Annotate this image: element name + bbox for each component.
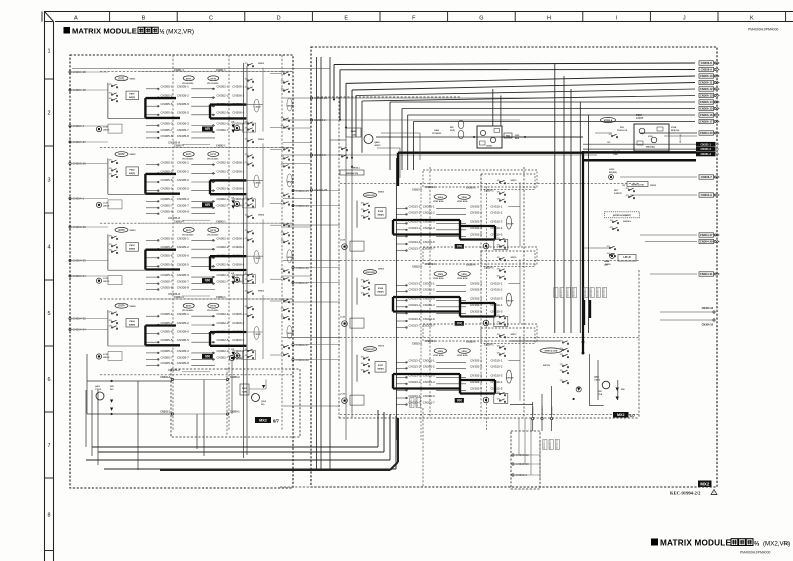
svg-text:L/R LR: L/R LR <box>623 257 631 259</box>
svg-text:CN305-6: CN305-6 <box>177 178 189 182</box>
svg-text:CN305-2: CN305-2 <box>160 169 172 173</box>
svg-text:CN302-7: CN302-7 <box>216 204 228 208</box>
svg-text:VR02 A20k: VR02 A20k <box>433 354 445 357</box>
svg-text:GROUP: GROUP <box>507 301 515 303</box>
svg-text:CN306-2: CN306-2 <box>232 245 244 249</box>
svg-text:SW16: SW16 <box>511 257 518 259</box>
svg-text:CN305-1: CN305-1 <box>177 312 189 316</box>
svg-text:CN305-3: CN305-3 <box>177 197 189 201</box>
svg-text:EXT1: EXT1 <box>119 77 126 80</box>
svg-text:CN318-1: CN318-1 <box>542 405 544 415</box>
svg-text:CN305-7: CN305-7 <box>177 355 189 359</box>
svg-text:CN306-16: CN306-16 <box>700 113 713 117</box>
svg-text:SW28-b: SW28-b <box>623 221 632 223</box>
svg-text:CN305-1: CN305-1 <box>177 236 189 240</box>
svg-text:CN305-3: CN305-3 <box>177 121 189 125</box>
svg-text:SW(F): SW(F) <box>129 325 136 327</box>
svg-text:CN313-6: CN313-6 <box>408 317 420 321</box>
svg-text:SW(F): SW(F) <box>129 97 136 99</box>
svg-text:CN310-3: CN310-3 <box>490 373 502 377</box>
svg-text:VR02 A20k: VR02 A20k <box>457 277 469 280</box>
svg-text:4: 4 <box>47 245 50 251</box>
svg-text:CN306-12: CN306-12 <box>700 87 713 91</box>
svg-text:CN301-1: CN301-1 <box>423 281 435 285</box>
svg-text:EXT2: EXT2 <box>211 78 217 80</box>
svg-text:CN302: CN302 <box>254 182 261 184</box>
svg-text:CN305-5: CN305-5 <box>177 111 189 115</box>
svg-text:CP106/25: CP106/25 <box>432 133 442 135</box>
svg-text:SW(F): SW(F) <box>129 173 136 175</box>
svg-text:6/7: 6/7 <box>273 418 279 423</box>
svg-text:SW(F): SW(F) <box>377 292 384 294</box>
svg-text:CN301-7: CN301-7 <box>423 401 435 405</box>
svg-text:CN310-1: CN310-1 <box>490 204 502 208</box>
svg-text:VR: VR <box>457 244 462 248</box>
svg-text:CN305-2: CN305-2 <box>160 245 172 249</box>
svg-text:CN305-2: CN305-2 <box>160 321 172 325</box>
svg-text:MTRX A CUE: MTRX A CUE <box>545 350 558 353</box>
svg-text:LED38: LED38 <box>103 357 110 359</box>
svg-text:CN315-3: CN315-3 <box>556 439 558 449</box>
svg-text:SW05: SW05 <box>258 291 265 293</box>
svg-text:P402: P402 <box>129 168 135 171</box>
svg-text:CN302: CN302 <box>254 107 261 109</box>
svg-text:!: ! <box>714 491 715 495</box>
svg-text:CN307-2: CN307-2 <box>561 287 563 297</box>
svg-text:CN301-4: CN301-4 <box>423 226 435 230</box>
svg-text:EXT1: EXT1 <box>186 306 192 308</box>
svg-text:CN321-1: CN321-1 <box>701 142 712 146</box>
svg-text:CN305-8: CN305-8 <box>177 210 189 214</box>
svg-text:CN304-4: CN304-4 <box>174 296 184 299</box>
svg-text:CN315-2: CN315-2 <box>550 439 552 449</box>
svg-text:C: C <box>209 16 213 22</box>
svg-text:CN324-1: CN324-1 <box>484 344 494 347</box>
svg-text:CN301-4: CN301-4 <box>174 69 184 72</box>
svg-text:CN305-1: CN305-1 <box>160 312 172 316</box>
svg-text:CN306-1: CN306-1 <box>232 85 244 89</box>
svg-text:CN302-7: CN302-7 <box>216 355 228 359</box>
svg-text:J: J <box>683 16 686 22</box>
svg-text:CN305-2: CN305-2 <box>177 245 189 249</box>
svg-text:CN301-2: CN301-2 <box>423 210 435 214</box>
svg-text:CN306-17: CN306-17 <box>700 120 713 124</box>
svg-text:CN305-7: CN305-7 <box>177 280 189 284</box>
svg-text:CN304-18: CN304-18 <box>702 307 714 310</box>
svg-text:CN306-2: CN306-2 <box>232 169 244 173</box>
svg-text:CN310-1: CN310-1 <box>490 281 502 285</box>
svg-text:CN310-2: CN310-2 <box>490 364 502 368</box>
svg-text:CN302-2: CN302-2 <box>470 364 482 368</box>
svg-text:CN310-5: CN310-5 <box>490 232 502 236</box>
svg-text:CN313-4: CN313-4 <box>412 189 422 192</box>
svg-text:CN305-3: CN305-3 <box>160 197 172 201</box>
svg-text:GROUP6: GROUP6 <box>365 272 375 274</box>
svg-text:CN313-4: CN313-4 <box>412 266 422 269</box>
svg-text:E: E <box>344 16 348 22</box>
svg-text:A OUT: A OUT <box>636 117 644 120</box>
svg-text:CN306-5: CN306-5 <box>232 338 244 342</box>
svg-text:CN305-6: CN305-6 <box>160 330 172 334</box>
svg-text:CN301-4: CN301-4 <box>426 340 436 343</box>
svg-text:MTRX A: MTRX A <box>604 119 613 122</box>
svg-text:GROUP: GROUP <box>507 378 515 380</box>
svg-text:VR02 A20k: VR02 A20k <box>433 277 445 280</box>
svg-text:CN305-1: CN305-1 <box>177 161 189 165</box>
svg-text:VR: VR <box>205 355 210 359</box>
svg-text:CN302-2: CN302-2 <box>470 210 482 214</box>
svg-text:CN318-2: CN318-2 <box>552 405 554 415</box>
svg-text:CN305-5: CN305-5 <box>160 187 172 191</box>
svg-text:½: ½ <box>160 28 165 35</box>
svg-text:CN302-2: CN302-2 <box>216 94 228 98</box>
svg-text:CN301-4: CN301-4 <box>426 186 436 189</box>
svg-text:CN301-6: CN301-6 <box>423 317 435 321</box>
svg-text:IC26: IC26 <box>648 136 653 138</box>
svg-text:(MX2,VR): (MX2,VR) <box>166 28 194 35</box>
svg-text:VR: VR <box>205 203 210 207</box>
svg-text:SW01: SW01 <box>130 78 137 80</box>
svg-text:CN302: CN302 <box>254 258 261 260</box>
svg-text:CN313-4: CN313-4 <box>408 303 420 307</box>
svg-text:CN318-0: CN318-0 <box>533 405 535 415</box>
svg-text:MX2: MX2 <box>617 413 624 417</box>
svg-text:CN305-3: CN305-3 <box>160 273 172 277</box>
svg-text:CN305-1: CN305-1 <box>160 236 172 240</box>
svg-text:⅔: ⅔ <box>754 540 760 547</box>
svg-text:CN313-2: CN313-2 <box>408 210 420 214</box>
svg-text:A1015: A1015 <box>375 144 382 147</box>
svg-text:6/7: 6/7 <box>630 413 636 418</box>
svg-text:EXT3: EXT3 <box>119 229 126 232</box>
svg-text:CN307-3: CN307-3 <box>567 287 569 297</box>
svg-text:SW03: SW03 <box>130 230 137 232</box>
svg-text:CN306-1: CN306-1 <box>232 312 244 316</box>
svg-text:CN302-5: CN302-5 <box>470 309 482 313</box>
svg-text:CN305-5: CN305-5 <box>177 338 189 342</box>
svg-text:CN305-1: CN305-1 <box>177 85 189 89</box>
svg-text:CN305-6: CN305-6 <box>177 254 189 258</box>
svg-text:BLK R(A): BLK R(A) <box>679 134 682 143</box>
svg-text:CN305-3: CN305-3 <box>160 121 172 125</box>
svg-text:CN302-3: CN302-3 <box>216 349 228 353</box>
svg-text:CN302-7: CN302-7 <box>216 128 228 132</box>
svg-text:MX2: MX2 <box>700 482 710 487</box>
svg-text:A: A <box>74 16 78 22</box>
svg-text:CN302-5: CN302-5 <box>216 187 228 191</box>
svg-text:L/R: L/R <box>231 122 235 124</box>
svg-text:MX2: MX2 <box>259 419 267 423</box>
svg-text:CUE: CUE <box>598 394 603 396</box>
svg-text:CN315-1: CN315-1 <box>544 439 546 449</box>
svg-text:MATRIX MODULE: MATRIX MODULE <box>660 539 731 548</box>
svg-text:L/R: L/R <box>231 197 235 199</box>
svg-text:GROUP: GROUP <box>287 181 295 183</box>
svg-text:CN305-2: CN305-2 <box>177 321 189 325</box>
svg-text:CN301-4: CN301-4 <box>426 263 436 266</box>
svg-text:CN307-1: CN307-1 <box>555 287 557 297</box>
svg-text:CN302-1: CN302-1 <box>216 161 228 165</box>
svg-text:SW63: SW63 <box>378 269 385 271</box>
svg-text:CN305-7: CN305-7 <box>160 204 172 208</box>
svg-text:VR02: VR02 <box>461 197 467 199</box>
svg-text:CN305-6: CN305-6 <box>177 102 189 106</box>
svg-text:CN306-11: CN306-11 <box>700 81 713 85</box>
svg-text:CN305-8: CN305-8 <box>160 210 172 214</box>
svg-text:VR: VR <box>205 279 210 283</box>
svg-text:CN310-1: CN310-1 <box>490 358 502 362</box>
svg-text:CN302: CN302 <box>254 334 261 336</box>
svg-text:SW(F): SW(F) <box>129 249 136 251</box>
svg-text:VR: VR <box>205 127 210 131</box>
svg-text:VR02: VR02 <box>461 351 467 353</box>
svg-text:VR02: VR02 <box>438 351 444 353</box>
svg-text:CN305-5: CN305-5 <box>160 262 172 266</box>
svg-text:CN319-1: CN319-1 <box>160 410 170 413</box>
svg-text:CN306-8: CN306-8 <box>701 61 713 65</box>
svg-text:CN301-1: CN301-1 <box>423 358 435 362</box>
svg-text:LED: LED <box>604 265 609 267</box>
svg-text:CN305-1: CN305-1 <box>160 85 172 89</box>
svg-text:CN305-7: CN305-7 <box>160 280 172 284</box>
svg-text:LR26: LR26 <box>609 169 615 171</box>
svg-text:CN306-9: CN306-9 <box>701 68 713 72</box>
svg-text:EXT1: EXT1 <box>186 230 192 232</box>
svg-text:CN302-2: CN302-2 <box>216 321 228 325</box>
svg-text:VR: VR <box>457 398 462 402</box>
svg-text:SW04: SW04 <box>130 305 137 308</box>
svg-text:CN301-2: CN301-2 <box>423 287 435 291</box>
svg-text:R.MUTE: R.MUTE <box>614 193 622 195</box>
svg-text:LED38: LED38 <box>103 205 110 207</box>
svg-text:VR02: VR02 <box>461 274 467 276</box>
svg-text:2: 2 <box>47 111 50 117</box>
svg-text:(BOM): (BOM) <box>236 359 242 361</box>
svg-text:LED38: LED38 <box>103 281 110 283</box>
svg-text:EXT1: EXT1 <box>186 78 192 80</box>
svg-text:EXT4: EXT4 <box>119 305 126 308</box>
svg-text:CN301-4: CN301-4 <box>423 380 435 384</box>
svg-text:25(F): 25(F) <box>450 130 455 132</box>
svg-text:SW17: SW17 <box>511 334 518 336</box>
svg-text:CN313-4: CN313-4 <box>412 343 422 346</box>
svg-text:C1815: C1815 <box>95 389 102 391</box>
svg-text:CN302-5: CN302-5 <box>216 338 228 342</box>
svg-text:CN305-5: CN305-5 <box>160 111 172 115</box>
svg-text:5: 5 <box>47 311 50 317</box>
svg-text:CN306-1: CN306-1 <box>232 161 244 165</box>
svg-text:CN302-3: CN302-3 <box>470 296 482 300</box>
svg-text:6: 6 <box>47 377 50 383</box>
svg-text:R125: R125 <box>378 211 384 213</box>
svg-text:VR: VR <box>457 321 462 325</box>
svg-text:GROUP: GROUP <box>287 257 295 259</box>
svg-text:CN308-1: CN308-1 <box>585 287 587 297</box>
svg-text:SW15: SW15 <box>511 180 518 182</box>
svg-text:CN302-1: CN302-1 <box>470 358 482 362</box>
svg-text:CN302-5: CN302-5 <box>470 386 482 390</box>
svg-text:7: 7 <box>47 443 50 449</box>
svg-text:CN305-5: CN305-5 <box>177 262 189 266</box>
svg-text:CN313-1: CN313-1 <box>408 281 420 285</box>
svg-text:PGM A OK: PGM A OK <box>617 129 628 132</box>
svg-text:CN313-2: CN313-2 <box>408 364 420 368</box>
svg-text:R127: R127 <box>378 365 384 367</box>
svg-text:SW39-a: SW39-a <box>353 168 361 170</box>
svg-text:G: G <box>479 16 483 22</box>
svg-text:BPA/106: BPA/106 <box>671 129 680 132</box>
svg-text:CN302-4: CN302-4 <box>174 145 184 148</box>
svg-text:CN313-6: CN313-6 <box>408 240 420 244</box>
svg-text:CN306-7: CN306-7 <box>701 175 713 179</box>
svg-text:CN305-8: CN305-8 <box>160 134 172 138</box>
svg-text:R12B: R12B <box>671 127 677 129</box>
svg-text:CN304-3: CN304-3 <box>314 153 326 157</box>
svg-text:CN317-2: CN317-2 <box>417 397 419 407</box>
svg-text:P401: P401 <box>129 93 135 96</box>
svg-text:CN301-1: CN301-1 <box>216 69 226 72</box>
svg-text:CN302-2: CN302-2 <box>216 245 228 249</box>
svg-text:L/R: L/R <box>231 273 235 275</box>
svg-text:VR02: VR02 <box>438 274 444 276</box>
svg-text:CN305-7: CN305-7 <box>177 204 189 208</box>
svg-text:CN320-2: CN320-2 <box>230 376 240 379</box>
svg-text:CN305-2: CN305-2 <box>177 94 189 98</box>
svg-text:GROUP5: GROUP5 <box>365 195 375 197</box>
svg-text:CN302-5: CN302-5 <box>216 111 228 115</box>
svg-text:C1815: C1815 <box>594 380 601 382</box>
svg-text:CN306-5: CN306-5 <box>232 187 244 191</box>
svg-text:CN305-5: CN305-5 <box>160 338 172 342</box>
svg-text:GROUP: GROUP <box>287 333 295 335</box>
svg-text:CN305-3: CN305-3 <box>160 349 172 353</box>
svg-text:CN313-4: CN313-4 <box>408 226 420 230</box>
svg-text:P403: P403 <box>129 244 135 247</box>
svg-text:VR02: VR02 <box>438 197 444 199</box>
svg-text:P404: P404 <box>129 320 135 323</box>
svg-text:CN304-20: CN304-20 <box>700 131 713 135</box>
svg-text:CN304-29: CN304-29 <box>700 240 713 244</box>
svg-text:RA28: RA28 <box>351 130 357 133</box>
svg-text:SW29: SW29 <box>650 185 657 187</box>
svg-text:CN305-3: CN305-3 <box>177 349 189 353</box>
svg-text:SW02: SW02 <box>258 63 265 65</box>
svg-text:CN305-8: CN305-8 <box>160 361 172 365</box>
svg-text:CN302-1: CN302-1 <box>216 145 226 148</box>
svg-text:CN313-4: CN313-4 <box>408 380 420 384</box>
svg-text:CN305-3: CN305-3 <box>177 273 189 277</box>
svg-text:CN306-13: CN306-13 <box>700 94 713 98</box>
svg-text:CN305-6: CN305-6 <box>160 178 172 182</box>
svg-text:CN305-2: CN305-2 <box>160 94 172 98</box>
svg-text:CN320-1: CN320-1 <box>466 264 476 267</box>
svg-text:CN302-3: CN302-3 <box>470 373 482 377</box>
svg-text:CN305-8: CN305-8 <box>168 368 180 372</box>
svg-text:CN305-1: CN305-1 <box>160 161 172 165</box>
svg-text:CN302-1: CN302-1 <box>470 281 482 285</box>
svg-text:CN317-1: CN317-1 <box>411 397 413 407</box>
svg-text:CN301-6: CN301-6 <box>423 394 435 398</box>
svg-text:3: 3 <box>47 178 50 184</box>
svg-text:CN301-2: CN301-2 <box>423 364 435 368</box>
svg-text:CN310-2: CN310-2 <box>490 287 502 291</box>
svg-text:EXT2: EXT2 <box>119 153 126 156</box>
svg-text:C22: C22 <box>784 542 790 546</box>
svg-text:D: D <box>277 16 281 22</box>
svg-text:CN302-1: CN302-1 <box>470 204 482 208</box>
svg-text:CN304-35: CN304-35 <box>314 188 328 192</box>
svg-text:CN310-2: CN310-2 <box>490 210 502 214</box>
svg-text:CN304-27: CN304-27 <box>700 233 713 237</box>
svg-text:CN320-1: CN320-1 <box>230 410 240 413</box>
svg-text:CN324-1: CN324-1 <box>484 190 494 193</box>
svg-text:CN304-1: CN304-1 <box>216 296 226 299</box>
svg-text:CN302-3: CN302-3 <box>216 197 228 201</box>
svg-text:H: H <box>547 16 551 22</box>
svg-text:CN306-10: CN306-10 <box>700 74 713 78</box>
svg-text:CN305-6: CN305-6 <box>160 102 172 106</box>
svg-text:BD(M6): BD(M6) <box>609 172 617 174</box>
svg-text:(MTRX A INSERT): (MTRX A INSERT) <box>613 214 632 217</box>
svg-text:EXT2: EXT2 <box>211 306 217 308</box>
svg-text:CN303-4: CN303-4 <box>174 220 184 223</box>
svg-text:SW(F): SW(F) <box>377 369 384 371</box>
svg-text:CN304-31: CN304-31 <box>700 272 713 276</box>
svg-text:VR02 A20k: VR02 A20k <box>457 200 469 203</box>
svg-text:CN320-1: CN320-1 <box>466 187 476 190</box>
svg-text:(MON A TO): (MON A TO) <box>346 172 358 175</box>
svg-text:LED38: LED38 <box>103 130 110 132</box>
svg-text:MATRIX MODULE: MATRIX MODULE <box>72 27 137 36</box>
svg-text:CN310-5: CN310-5 <box>490 386 502 390</box>
svg-text:CN302-3: CN302-3 <box>216 121 228 125</box>
svg-text:CN321-3: CN321-3 <box>701 152 712 156</box>
svg-text:CN304-19: CN304-19 <box>702 324 714 327</box>
svg-text:B: B <box>142 16 146 22</box>
svg-text:CN310-3: CN310-3 <box>490 219 502 223</box>
svg-text:CN308-3: CN308-3 <box>597 287 599 297</box>
svg-text:SW02: SW02 <box>130 154 137 156</box>
svg-text:CN302-2: CN302-2 <box>470 287 482 291</box>
svg-text:CN307-4: CN307-4 <box>574 287 576 297</box>
svg-text:CN313-2: CN313-2 <box>408 287 420 291</box>
svg-text:GROUP7: GROUP7 <box>365 349 375 351</box>
svg-text:CN305-7: CN305-7 <box>177 128 189 132</box>
svg-text:CN302-3: CN302-3 <box>470 219 482 223</box>
svg-text:SW73: SW73 <box>378 346 385 348</box>
svg-text:MTRX A ON: MTRX A ON <box>631 183 644 186</box>
svg-text:EXT1: EXT1 <box>186 154 192 156</box>
svg-text:CN324-1: CN324-1 <box>484 267 494 270</box>
svg-text:CN302-1: CN302-1 <box>216 85 228 89</box>
svg-text:CN306-5: CN306-5 <box>232 111 244 115</box>
svg-text:L/R: L/R <box>231 349 235 351</box>
svg-text:CN308-4: CN308-4 <box>604 287 606 297</box>
svg-text:CN320-1: CN320-1 <box>466 341 476 344</box>
svg-text:K: K <box>750 16 754 22</box>
svg-text:PM4000HJ/PM4000: PM4000HJ/PM4000 <box>748 28 778 32</box>
svg-text:R126: R126 <box>378 288 384 290</box>
svg-text:PM4000HJ/PM4000: PM4000HJ/PM4000 <box>740 551 770 555</box>
svg-text:CN304-2: CN304-2 <box>314 118 326 122</box>
svg-text:KEC-91994-2/2: KEC-91994-2/2 <box>670 491 701 496</box>
svg-text:CN321-2: CN321-2 <box>701 147 712 151</box>
svg-text:CN302-5: CN302-5 <box>216 262 228 266</box>
svg-text:1: 1 <box>47 48 50 54</box>
svg-text:CN305-7: CN305-7 <box>160 128 172 132</box>
svg-text:CN306-15: CN306-15 <box>700 107 713 111</box>
svg-text:CN305-2: CN305-2 <box>177 169 189 173</box>
